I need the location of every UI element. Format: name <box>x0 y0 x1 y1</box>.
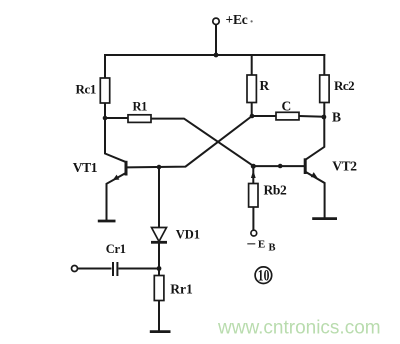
svg-text:R: R <box>260 78 270 93</box>
svg-text:Rc1: Rc1 <box>76 81 96 96</box>
svg-text:B: B <box>269 243 276 254</box>
svg-text:E: E <box>258 239 265 251</box>
svg-text:VD1: VD1 <box>176 228 200 242</box>
svg-text:Rc2: Rc2 <box>334 78 354 93</box>
svg-text:C: C <box>282 99 292 114</box>
svg-text:Rr1: Rr1 <box>170 281 193 296</box>
svg-text:Cr1: Cr1 <box>106 242 126 256</box>
svg-text:+Ec: +Ec <box>226 12 248 27</box>
svg-text:R1: R1 <box>133 100 148 114</box>
svg-text:www.cntronics.com: www.cntronics.com <box>217 318 381 339</box>
svg-text:VT1: VT1 <box>73 160 98 175</box>
svg-text:10: 10 <box>258 267 270 284</box>
svg-text:Rb2: Rb2 <box>264 182 287 197</box>
svg-text:VT2: VT2 <box>332 158 357 173</box>
svg-text:B: B <box>332 109 341 124</box>
